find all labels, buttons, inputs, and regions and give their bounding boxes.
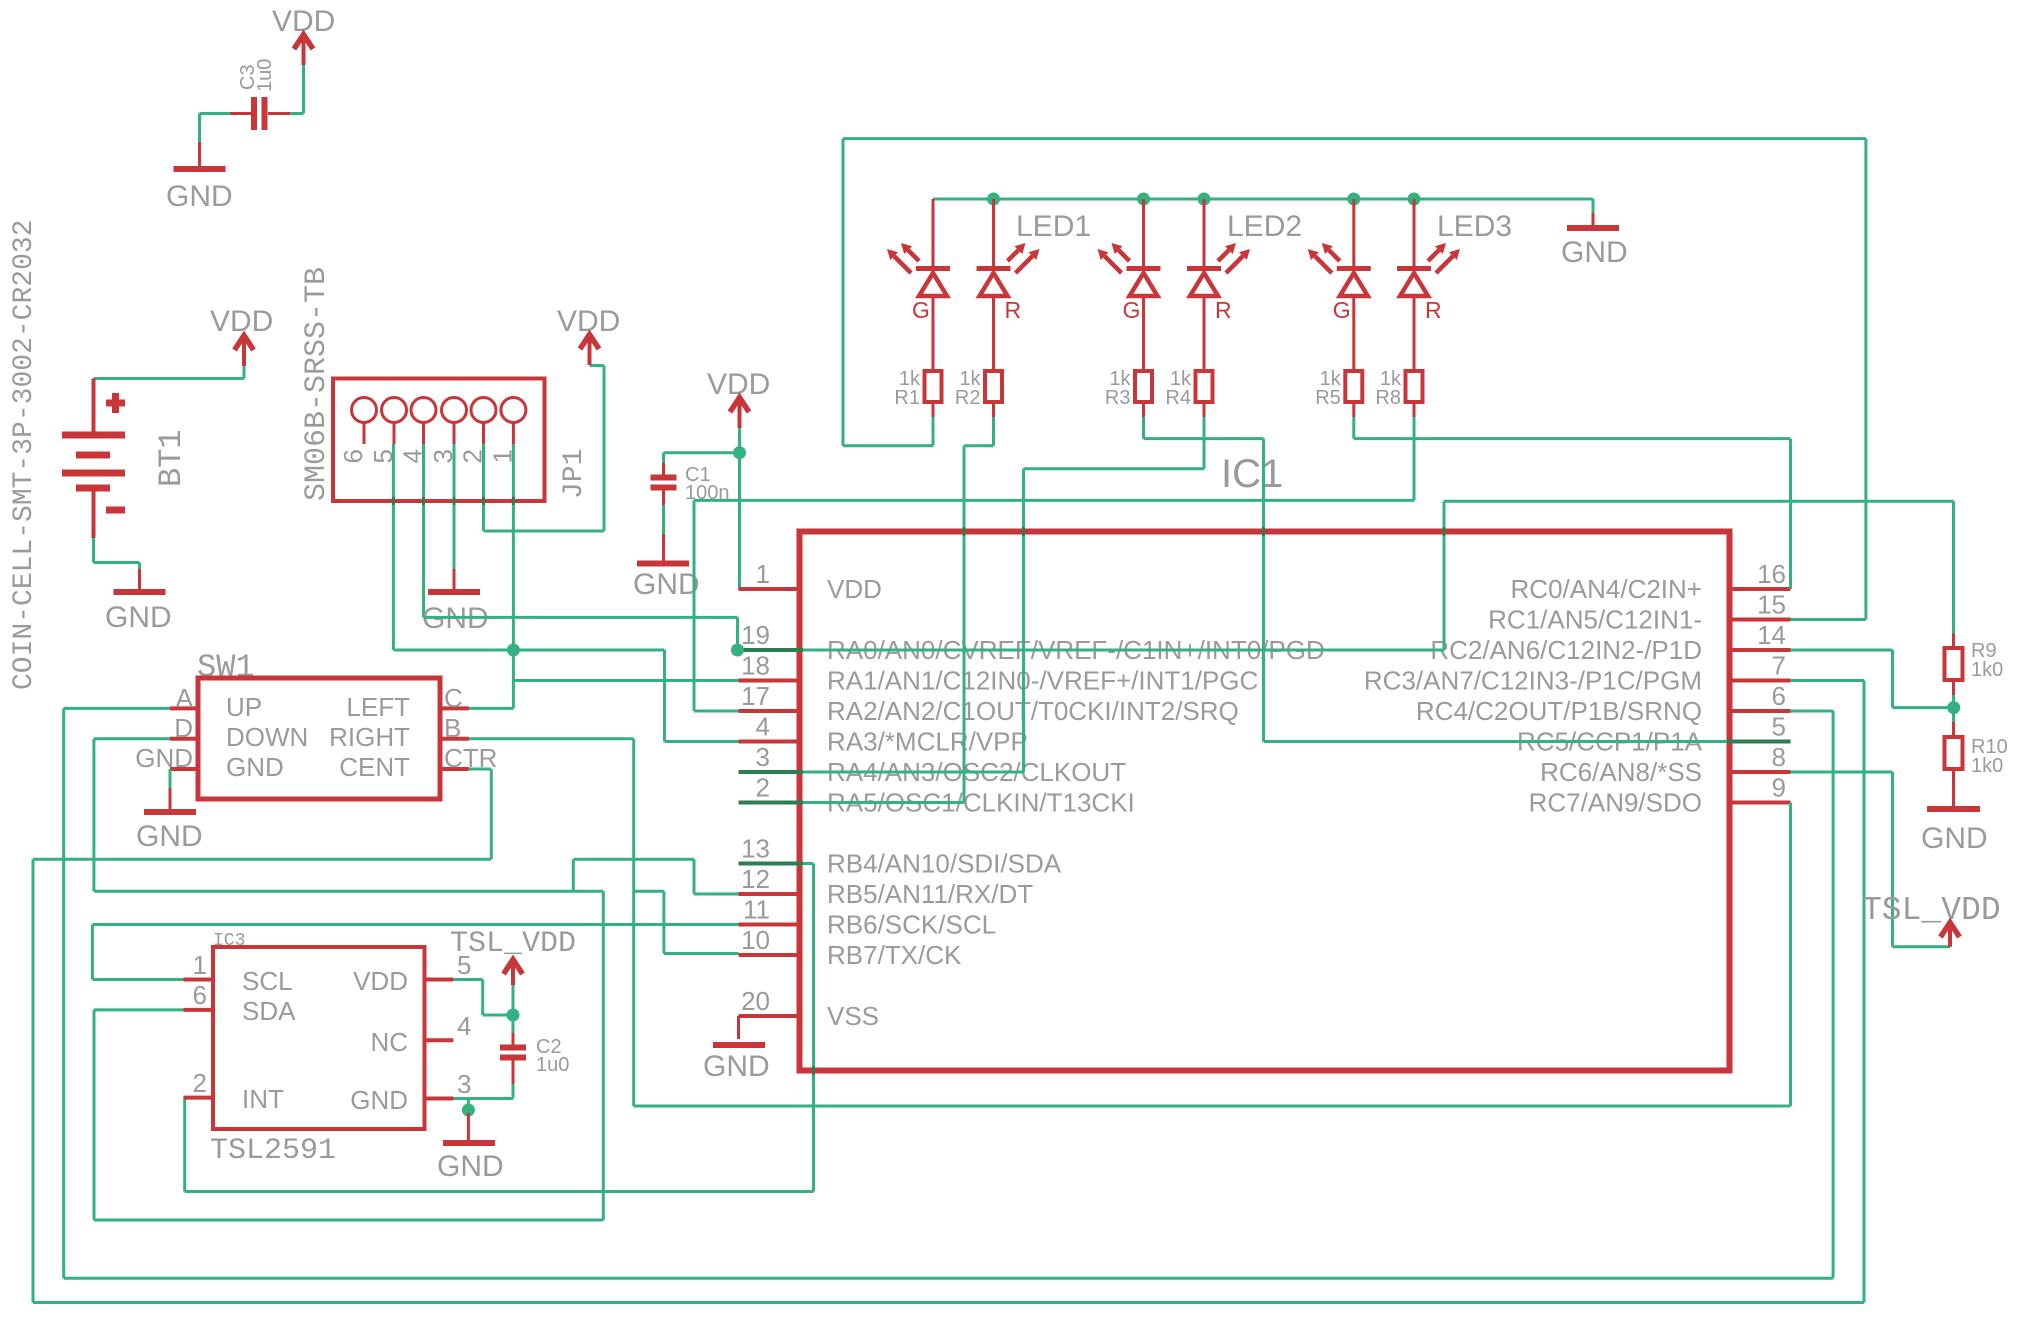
svg-text:NC: NC [370,1027,408,1057]
wire RA5 interior [803,801,964,804]
wire rail to GND [1592,199,1595,213]
svg-text:VSS: VSS [827,1001,879,1031]
lead LED to R5 [1352,297,1355,371]
svg-text:JP1: JP1 [559,449,590,499]
svg-text:VDD: VDD [353,966,408,996]
pin C3 left [230,112,251,115]
svg-text:R1: R1 [894,387,920,409]
wire GND drop [467,1099,470,1114]
wire BT1 to GND [138,563,141,570]
ground (SW1) [169,788,172,812]
svg-text:LED1: LED1 [1016,210,1091,243]
IC3 pin 2 stub [184,1096,214,1100]
svg-text:18: 18 [741,651,770,681]
svg-text:GND: GND [1921,822,1988,855]
IC1 pin 11 stub [739,923,800,927]
wire SDA vertical link [602,891,605,1220]
svg-text:RB4/AN10/SDI/SDA: RB4/AN10/SDI/SDA [827,849,1062,879]
svg-text:8: 8 [1772,742,1786,772]
svg-text:RC6/AN8/*SS: RC6/AN8/*SS [1540,757,1702,787]
svg-text:1k0: 1k0 [1971,755,2003,777]
svg-text:LEFT: LEFT [346,692,410,722]
wire SDA vertical [93,1010,96,1220]
wire pin8 down [1891,772,1894,947]
svg-text:GND: GND [105,601,172,634]
wire CTR vertical left [32,859,35,1302]
JP1 pin circle 6 [352,398,377,423]
wire R2 jog [964,444,994,447]
wire over IC1 pin2 stub [739,801,803,805]
wire C3 right [290,112,304,115]
wire JP1 pin3 down [453,444,456,569]
wire C1 top [662,453,665,463]
pin C3 right [268,112,290,115]
IC1 pin 7 stub [1730,679,1791,683]
svg-text:RB5/AN11/RX/DT: RB5/AN11/RX/DT [827,879,1033,909]
wire JP1 pin4 down [422,444,425,617]
svg-text:6: 6 [338,449,368,463]
wire MCLR net down [663,650,666,742]
wire pin9 down [1789,803,1792,1107]
svg-text:GND: GND [350,1085,408,1115]
IC1 pin 4 stub [739,740,800,744]
lead R5 bottom [1352,402,1355,417]
JP1 pin circle 3 [442,398,467,423]
wire IC3 VDD out [453,978,482,981]
wire pin14 out [1791,649,1893,652]
wire pin19 link vertical [736,617,739,650]
svg-text:RA1/AN1/C12IN0-/VREF+/INT1/PGC: RA1/AN1/C12IN0-/VREF+/INT1/PGC [827,666,1258,696]
IC1 pin 3 stub [739,770,800,774]
wire C3 to GND [198,114,201,143]
svg-text:3: 3 [457,1069,471,1099]
svg-text:12: 12 [741,864,770,894]
IC1 pin 20 stub [739,1014,800,1018]
svg-text:11: 11 [743,895,770,925]
wire pin8 out [1791,771,1893,774]
wire to TSL_VDD junction [483,1014,513,1017]
IC1 pin 6 stub [1730,709,1791,713]
wire LED R2 top lead [992,199,995,266]
pin C1 bottom [662,490,665,505]
svg-text:TSL2591: TSL2591 [210,1134,336,1168]
wire RA0 interior [803,649,1444,652]
VDD arrow (JP1) [588,333,592,365]
svg-text:LED2: LED2 [1227,210,1302,243]
wire over IC1 pin5 stub [1727,740,1791,744]
lead R10 top [1952,722,1955,737]
wire over IC1 top border [963,527,966,536]
wire pin A vertical [62,708,65,1278]
svg-text:GND: GND [437,1150,504,1183]
svg-text:RA3/*MCLR/VPP: RA3/*MCLR/VPP [827,727,1028,757]
wire MCLR net right [513,649,664,652]
IC1 pin 14 stub [1730,648,1791,652]
svg-text:RC2/AN6/C12IN2-/P1D: RC2/AN6/C12IN2-/P1D [1430,635,1702,665]
svg-text:RA2/AN2/C1OUT/T0CKI/INT2/SRQ: RA2/AN2/C1OUT/T0CKI/INT2/SRQ [827,696,1239,726]
wire RB5 link top [573,858,694,861]
wire pin6 down [1832,711,1835,1278]
svg-text:GND: GND [135,743,193,773]
junction VDD/C1 [733,446,746,459]
wire pin A out [64,707,170,710]
pin C2 bottom [512,1060,515,1084]
wire VDD to IC1 pin1 [738,428,741,589]
wire pin D out [94,737,170,740]
svg-text:4: 4 [756,712,770,742]
wire R5 to pin16 [1354,437,1791,440]
wire to pin17 [694,710,739,713]
junction LED rail x=1414 [1408,193,1421,206]
IC1 pin 9 stub [1730,801,1791,805]
lead LED to R3 [1142,297,1145,371]
svg-text:1u0: 1u0 [254,59,276,92]
battery BT1 [62,379,125,539]
wire BT1 minus vertical [92,538,95,563]
svg-text:RB6/SCK/SCL: RB6/SCK/SCL [827,910,996,940]
LED diode G (R5 column) [1308,243,1371,296]
wire RA0 up [1443,501,1446,650]
lead LED to R2 [992,297,995,371]
svg-text:GND: GND [633,568,700,601]
wire CTR horizontal [33,858,491,861]
resistor R4 [1196,371,1213,402]
svg-text:6: 6 [193,980,207,1010]
svg-text:SDA: SDA [242,996,296,1026]
junction R9/R10 [1947,701,1960,714]
ground (LED rail) [1592,213,1595,228]
wire pin6 out [1791,710,1834,713]
IC1 pin 15 stub [1730,618,1791,622]
IC IC1 body [800,532,1730,1071]
wire RC5 interior [1264,740,1728,743]
wire SCL to pin11 [92,923,738,926]
wire junction to C2 [512,1015,515,1033]
ground (JP1) [453,569,456,592]
wire R2 down [992,417,995,446]
svg-text:RC7/AN9/SDO: RC7/AN9/SDO [1529,788,1702,818]
ground (IC3) [443,1140,495,1146]
wire JP1 pin2 up [603,366,606,532]
wire R9 top vertical [1952,501,1955,633]
IC1 pin 17 stub [739,709,800,713]
svg-text:RB7/TX/CK: RB7/TX/CK [827,940,962,970]
wire over IC1 top border [1262,527,1265,536]
junction pin19 [731,644,744,657]
svg-text:C: C [444,683,463,713]
wire JP1 pin5 down [392,444,395,650]
svg-text:1: 1 [193,950,207,980]
wire pin13 down [812,864,815,1192]
wire SDA bottom [94,1219,603,1222]
lead R2 bottom [992,402,995,417]
wire pin D down [92,739,95,891]
LED diode R (R4 column) [1187,243,1250,296]
wire R3 down [1142,417,1145,439]
wire over JP1 border [422,497,425,505]
wire LED R8 top lead [1413,199,1416,266]
svg-text:GND: GND [1561,236,1628,269]
wire R1 to loop [932,417,935,446]
svg-text:DOWN: DOWN [226,722,308,752]
LED diode R (R2 column) [977,243,1040,296]
svg-text:10: 10 [741,925,770,955]
lead LED to R4 [1203,297,1206,371]
IC1 pin 12 stub [739,892,800,896]
svg-text:G: G [1333,297,1351,323]
svg-text:R2: R2 [955,387,981,409]
VDD arrow (C3) [302,33,306,65]
wire to pin4 [665,740,739,743]
svg-text:VDD: VDD [827,574,882,604]
TSL_VDD arrow right [1948,921,1952,947]
wire left loop vertical [842,139,845,446]
ground (C3) [198,142,201,169]
lead R9 top [1952,634,1955,649]
wire JP1 pin5 to junction [393,649,513,652]
wire SCL vertical [91,925,94,980]
capacitor C2 [500,1045,526,1051]
pin C2 top [512,1033,515,1047]
svg-text:19: 19 [741,620,770,650]
wire to pin10 [664,952,739,955]
wire LED R5 top lead [1352,199,1355,266]
svg-text:17: 17 [741,681,770,711]
wire LED R1 top lead [932,199,935,266]
wire C1 to GND red [662,534,665,562]
lead R10 bottom [1952,769,1955,806]
wire R4 jog [1024,467,1205,470]
VDD arrow (C1) [738,396,742,428]
wire CTR drop [490,769,493,859]
ground (C1) [637,561,689,567]
svg-text:CENT: CENT [339,752,410,782]
wire over IC1 top border [1022,527,1025,536]
pin GND symbol [467,1113,470,1142]
pin C1 top [662,463,665,477]
svg-text:1u0: 1u0 [536,1054,569,1076]
JP1 pin circle 1 [501,398,526,423]
wire over IC1 pin19 stub [739,648,803,652]
wire RB5 drop [693,859,696,894]
SW1 pin GND stub [170,767,198,771]
svg-text:6: 6 [1772,681,1786,711]
svg-text:GND: GND [226,752,284,782]
IC1 pin 13 stub [739,862,800,866]
svg-text:1k0: 1k0 [1971,659,2003,681]
wire LED R4 top lead [1203,199,1206,266]
wire over IC1 pin3 stub [739,770,803,774]
wire bottom loop A-RC4 [64,1277,1833,1280]
resistor R1 [925,371,942,402]
wire RA0 to R9 [1444,500,1954,503]
wire over IC1 top border [1443,527,1446,536]
resistor R2 [985,371,1002,402]
svg-text:R: R [1425,297,1442,323]
wire pin13 inner [803,862,814,865]
IC3 pin 4 stub [425,1038,454,1042]
lead R3 bottom [1142,402,1145,417]
JP1 pin circle 5 [382,398,407,423]
wire R8 down [1413,417,1416,500]
wire over JP1 border [453,497,456,505]
svg-text:RC4/C2OUT/P1B/SRNQ: RC4/C2OUT/P1B/SRNQ [1416,696,1702,726]
wire R8 left [694,499,1414,502]
wire pin7 down [1863,681,1866,1303]
svg-text:RIGHT: RIGHT [329,722,410,752]
lead LED to R8 [1413,297,1416,371]
wire pin15 out [1791,618,1866,621]
wire over JP1 border [392,497,395,505]
wire R4 down [1203,417,1206,469]
svg-text:SCL: SCL [242,966,293,996]
IC1 pin 16 stub [1730,587,1791,591]
VDD arrow (BT1) [242,334,246,366]
wire pin D right [94,890,603,893]
wire RB5 link down [572,859,575,891]
svg-text:15: 15 [1757,590,1786,620]
wire over JP1 border [512,497,515,505]
svg-text:4: 4 [457,1011,471,1041]
wire LED cathode rail [933,198,1593,201]
wire R9-R10 [1952,695,1955,722]
svg-text:TSL_VDD: TSL_VDD [1862,892,2001,929]
junction LED rail x=1143.5 [1137,193,1150,206]
IC1 pin 2 stub [739,801,800,805]
lead LED to R1 [932,297,935,371]
wire divider to pin14 [1893,706,1954,709]
svg-text:GND: GND [136,820,203,853]
connector JP1 body [333,379,545,502]
svg-text:3: 3 [756,742,770,772]
wire to C1 [664,451,740,454]
junction TSL_VDD/C2 [507,1009,520,1022]
svg-text:RC0/AN4/C2IN+: RC0/AN4/C2IN+ [1511,574,1702,604]
wire IC3 GND to C2 [453,1097,513,1100]
LED diode G (R3 column) [1098,243,1161,296]
wire R3 to RC5 vertical [1262,439,1265,742]
wire pin14 vertical [1891,650,1894,708]
wire bottom loop CTR-RC3 [33,1301,1864,1304]
svg-text:G: G [912,297,930,323]
svg-text:D: D [174,713,193,743]
lead R9 bottom [1952,680,1955,695]
IC IC3 body [213,947,425,1129]
capacitor C1 [651,475,677,481]
wire top rail [843,137,1866,140]
junction GND node [462,1104,475,1117]
svg-text:COIN-CELL-SMT-3P-3002-CR2032: COIN-CELL-SMT-3P-3002-CR2032 [9,220,40,690]
wire R3 right [1144,437,1264,440]
wire SW1 GND [169,769,172,788]
svg-text:7: 7 [1772,651,1786,681]
wire BT1 minus horizontal [94,561,140,564]
svg-text:2: 2 [756,773,770,803]
wire arrow to junction [512,985,515,1015]
wire BT1 plus vertical [243,366,246,379]
resistor R8 [1406,371,1423,402]
LED diode R (R8 column) [1397,243,1460,296]
JP1 pin circle 2 [471,398,496,423]
wire R4 to RA4 vertical [1022,469,1025,772]
wire LED R3 top lead [1142,199,1145,266]
wire BT1 plus horizontal [94,377,245,380]
resistor R9 [1945,648,1963,680]
IC1 pin 10 stub [739,953,800,957]
wire pin C out [469,707,514,710]
resistor R10 [1945,737,1963,769]
wire INT down [183,1098,186,1192]
svg-text:UP: UP [226,692,262,722]
SW1 pin A stub [170,706,198,710]
IC1 pin 8 stub [1730,770,1791,774]
wire to TSL_VDD right [1893,945,1951,948]
wire CTR out [469,768,491,771]
wire C2 to GND net [512,1084,515,1099]
battery minus sign [106,507,125,514]
ground (BT1) [138,569,141,592]
svg-text:13: 13 [741,834,770,864]
svg-text:R3: R3 [1105,387,1131,409]
capacitor C3 [251,97,257,130]
wire jog to pin10 row [662,891,665,953]
svg-text:1: 1 [756,559,770,589]
wire pin13-INT bottom [185,1190,814,1193]
wire over JP1 border [482,497,485,505]
lead R8 bottom [1413,402,1416,417]
svg-text:16: 16 [1757,559,1786,589]
SW1 pin C stub [440,706,469,710]
wire pin B down [632,739,635,1106]
wire pin16 vertical [1789,439,1792,589]
svg-text:R: R [1215,297,1232,323]
LED diode G (R1 column) [887,243,950,296]
wire C3 right vertical [302,65,305,114]
svg-text:INT: INT [242,1084,284,1114]
wire R8 to RA2 vertical [693,500,696,711]
svg-text:14: 14 [1757,620,1786,650]
wire SCL to IC3 [92,978,183,981]
wire to IC1 pin18 [513,679,738,682]
svg-text:2: 2 [193,1068,207,1098]
resistor R3 [1135,371,1152,402]
svg-text:R5: R5 [1315,387,1341,409]
wire pin B jog [634,890,664,893]
svg-text:GND: GND [166,180,233,213]
wire pin19 link horizontal [424,616,738,619]
wire over IC1 pin13 stub [739,862,803,866]
svg-text:RC3/AN7/C12IN3-/P1C/PGM: RC3/AN7/C12IN3-/P1C/PGM [1364,666,1702,696]
JP1 pin circle 4 [411,398,436,423]
wire pin7 out [1791,679,1865,682]
junction JP1 pin1/C [507,644,520,657]
svg-text:BT1: BT1 [153,429,190,487]
battery plus sign [106,400,125,407]
lead R4 bottom [1203,402,1206,417]
ground (VSS) [713,1042,765,1048]
wire pin15 to top rail [1864,139,1867,620]
resistor R5 [1345,371,1362,402]
switch SW1 body [198,678,440,799]
IC1 pin 18 stub [739,679,800,683]
SW1 pin B stub [440,737,469,741]
svg-text:IC1: IC1 [1221,452,1283,496]
svg-text:GND: GND [703,1050,770,1083]
TSL_VDD arrow left [511,958,515,985]
IC3 pin 6 stub [184,1008,214,1012]
wire to VDD arrow (JP1) [590,364,605,367]
wire to pin12 [694,893,739,896]
